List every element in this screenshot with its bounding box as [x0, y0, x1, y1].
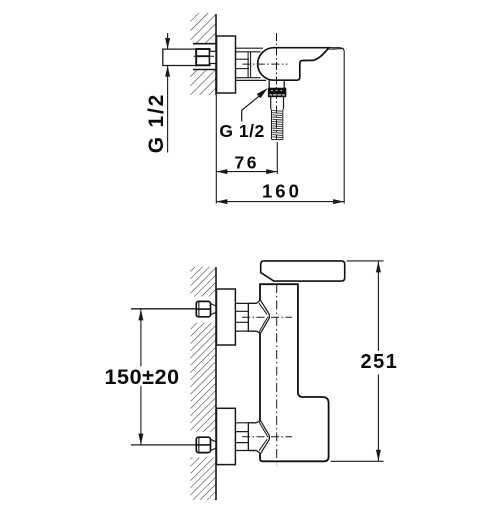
fitting small collar to wall	[210, 51, 216, 63]
dim 150±20 down arrow	[138, 434, 143, 445]
svg-text:150±20: 150±20	[105, 365, 180, 389]
svg-text:251: 251	[361, 351, 399, 373]
bottom escutcheon plate front	[217, 408, 236, 464]
wall face line bottom view	[215, 267, 217, 500]
wall hatching band segment 3	[191, 457, 217, 500]
nut white stripe	[269, 94, 285, 96]
top hex nut	[196, 301, 210, 316]
bottom hex nut	[196, 437, 210, 452]
dim 150±20 up arrow	[138, 309, 143, 320]
top escutcheon plate front	[217, 289, 236, 345]
escutcheon plate (side view)	[217, 36, 236, 93]
wall notch bottom edge	[193, 69, 216, 71]
dim 150±20 vertical line upper	[140, 309, 142, 366]
dim 160 left arrow	[216, 199, 227, 204]
inlet pipe stub	[163, 49, 196, 65]
hose thread side edges	[272, 109, 283, 139]
top nut mid line	[196, 308, 210, 310]
hose knurled nut (dark)	[268, 88, 285, 97]
arrow up to pipe bottom	[165, 66, 170, 77]
handle blade lower thin line	[329, 48, 344, 49]
dim 160 line	[216, 201, 344, 203]
leader line	[242, 96, 260, 122]
G 1/2 vertical dimension line upper segment	[167, 33, 169, 49]
bottom nut facet line	[198, 437, 200, 452]
svg-text:160: 160	[262, 181, 302, 202]
body vertical centerline front	[276, 284, 278, 466]
faucet body front view	[260, 284, 329, 461]
union nut arc (inner)	[261, 52, 266, 77]
shower outlet neck	[269, 80, 284, 88]
hose upper sleeve	[271, 97, 284, 110]
dim 150±20 vertical line lower	[140, 386, 142, 445]
dim 251 down arrow	[376, 450, 381, 461]
top nut collar to wall	[211, 304, 216, 315]
dim 160 right arrow	[333, 199, 344, 204]
handle right extension line	[343, 52, 345, 204]
handle front view	[261, 261, 345, 281]
bottom union cone inner diagonals	[259, 422, 267, 451]
dim 251 vertical line upper	[377, 261, 379, 351]
leader arrowhead	[257, 88, 268, 98]
dim 76 right arrow	[266, 169, 277, 174]
bottom nut mid line	[196, 444, 210, 446]
wall hatching band segment 2	[191, 323, 217, 432]
union flange vertical 2	[250, 52, 252, 78]
fitting mid facet line	[196, 55, 209, 57]
dim 251 vertical line lower	[377, 375, 379, 461]
G 1/2 vertical dimension line lower segment	[167, 66, 169, 153]
nut knurl flecks	[271, 89, 282, 91]
dim 251 bottom extension line	[331, 460, 384, 462]
bottom union cone	[248, 421, 269, 454]
left extension line (wall face) down	[215, 95, 217, 204]
dim 150±20 top extension line	[131, 308, 196, 310]
bottom union pipe end vertical	[247, 423, 249, 451]
svg-text:G 1/2: G 1/2	[145, 93, 168, 153]
union sleeve lines plate to body	[236, 47, 264, 49]
wall hatching lower part	[191, 70, 217, 96]
body vertical centerline dash-dot	[276, 33, 278, 140]
top union cone	[248, 300, 269, 333]
dim 150±20 bottom extension line	[131, 444, 196, 446]
svg-text:76: 76	[235, 153, 259, 173]
hose thread ridges	[272, 110, 282, 137]
handle blade back thin outline	[329, 48, 344, 52]
pipe centerline dash-dot	[194, 55, 220, 57]
hose tip line	[272, 139, 282, 141]
wall hatching band segment 1	[191, 267, 217, 297]
nut stripe ticks	[273, 94, 282, 95]
faucet body (side view)	[258, 48, 329, 80]
threaded wall fitting block	[196, 49, 209, 65]
hose center extension line	[276, 142, 278, 174]
bottom union pipe lines	[235, 423, 256, 451]
union flange vertical 1	[247, 52, 249, 78]
arrow down to pipe top	[165, 38, 170, 49]
wall hatching upper part	[191, 13, 217, 44]
svg-text:G 1/2: G 1/2	[219, 121, 264, 141]
bottom union body-side centerline	[242, 436, 292, 438]
wall notch top edge	[193, 43, 216, 45]
bottom nut collar to wall	[211, 439, 216, 450]
body horizontal centerline dash-dot	[242, 63, 287, 65]
top union body-side centerline	[242, 316, 292, 318]
wall face line	[215, 14, 217, 95]
top union pipe lines	[235, 303, 256, 331]
dim 251 top extension line	[347, 260, 384, 262]
dim 76 left arrow	[216, 169, 227, 174]
top union cone inner diagonals	[259, 303, 267, 332]
top union pipe end vertical	[247, 303, 249, 331]
dim 76 line	[216, 171, 277, 173]
dim 251 up arrow	[376, 261, 381, 272]
top nut facet line	[198, 301, 200, 316]
